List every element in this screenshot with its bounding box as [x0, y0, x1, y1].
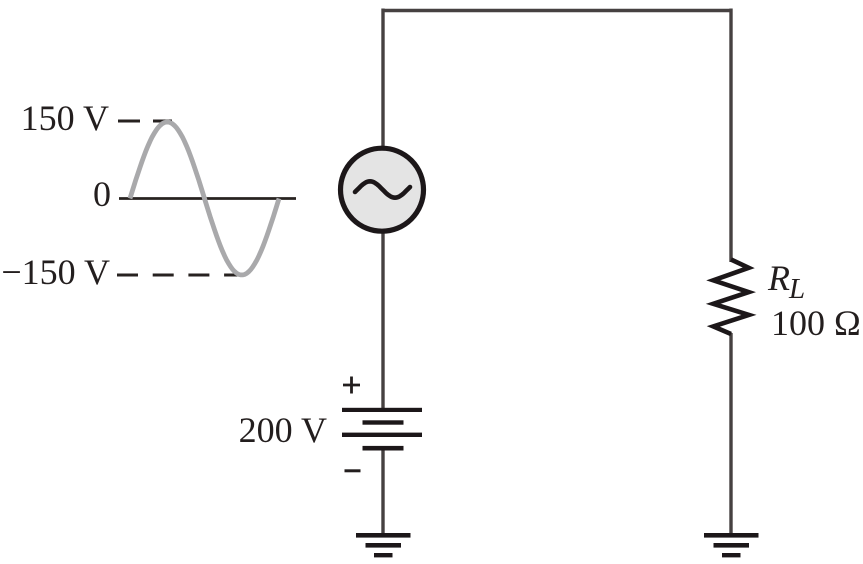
battery 200 V plate 1 long: [342, 408, 422, 412]
svg-text:100 Ω: 100 Ω: [771, 303, 861, 343]
plus polarity label: [343, 377, 360, 394]
wire right vertical lower (resistor to ground): [729, 333, 732, 535]
wire top horizontal: [383, 9, 731, 12]
AC source sine symbol: [355, 181, 410, 197]
waveform +150 V dashed level line: [118, 120, 172, 123]
AC source VS circle: [341, 148, 424, 231]
svg-text:150 V: 150 V: [21, 98, 109, 138]
ground right bar 3: [722, 553, 741, 557]
ground right bar 2: [714, 543, 750, 548]
ground right bar 1: [704, 533, 759, 538]
waveform -150 V dashed level line: [117, 274, 242, 277]
svg-text:0: 0: [93, 174, 111, 214]
svg-text:−150 V: −150 V: [1, 252, 110, 292]
svg-text:200 V: 200 V: [239, 410, 327, 450]
wire left vertical upper (top to AC source): [381, 9, 384, 149]
waveform zero axis: [119, 197, 296, 200]
battery plate 4 short: [363, 446, 404, 451]
sine waveform curve gray: [130, 122, 279, 275]
wire left vertical lower (battery to ground): [381, 449, 384, 535]
ground left bar 1: [356, 533, 411, 538]
battery plate 3 long: [342, 433, 422, 437]
wire left vertical middle (AC source to battery): [381, 232, 384, 409]
svg-text:L: L: [788, 273, 805, 305]
minus polarity label: [345, 469, 361, 472]
resistor RL zigzag: [713, 260, 749, 335]
wire right vertical upper (top to resistor): [729, 9, 732, 263]
svg-text:R: R: [767, 258, 790, 298]
battery plate 2 short: [363, 420, 404, 424]
ground left bar 3: [374, 553, 393, 557]
ground left bar 2: [366, 543, 402, 548]
